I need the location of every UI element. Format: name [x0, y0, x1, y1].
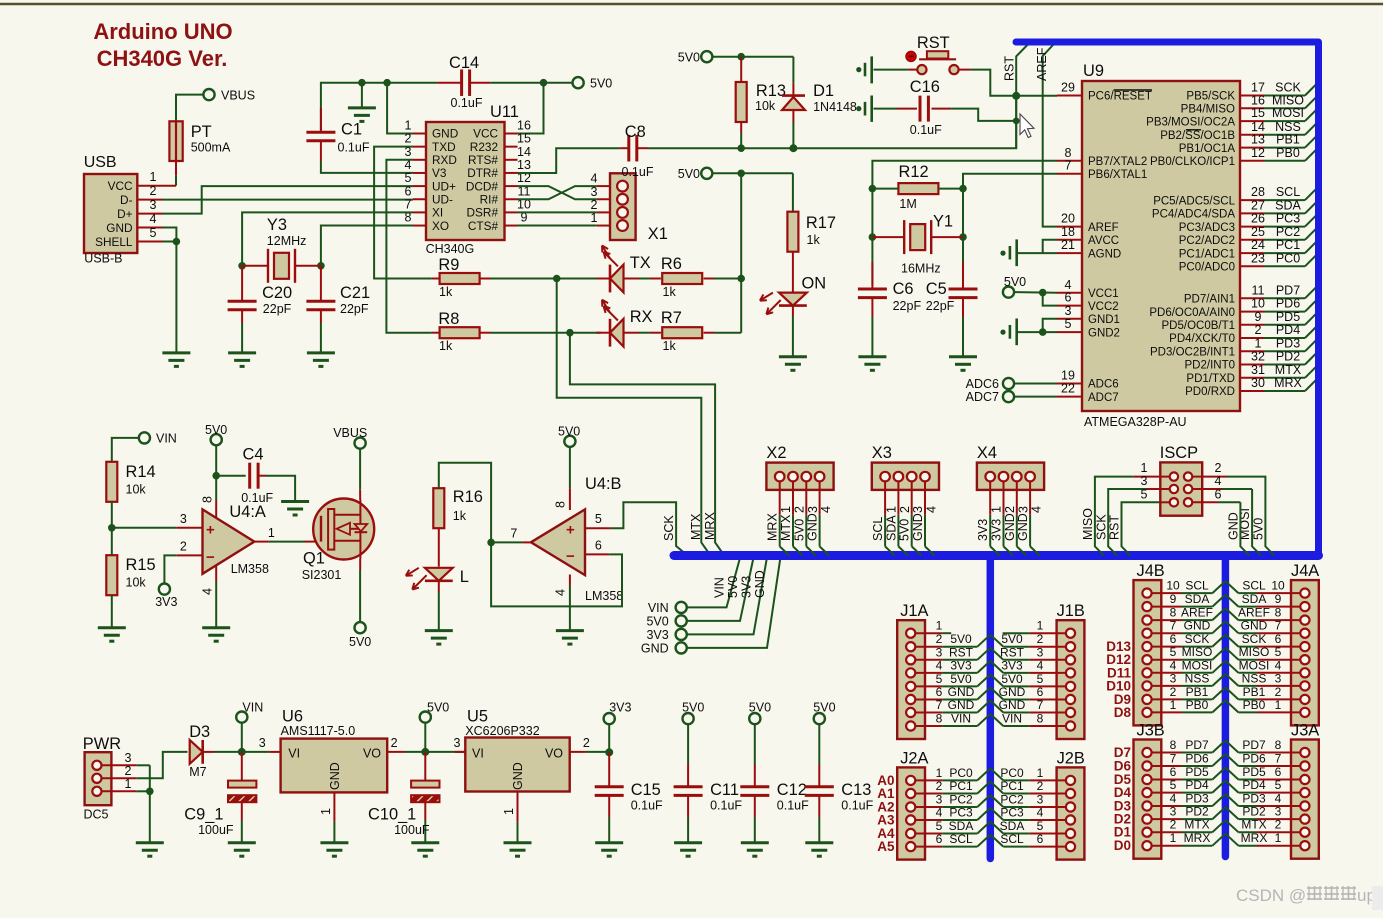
svg-text:GND: GND — [1003, 513, 1017, 541]
watermark hanzi — [1307, 887, 1322, 889]
J3A pin 4 net PD3 — [1300, 801, 1309, 810]
svg-text:1: 1 — [268, 526, 275, 540]
svg-text:XI: XI — [432, 206, 443, 220]
svg-text:10: 10 — [1251, 297, 1265, 311]
svg-text:UD-: UD- — [432, 192, 453, 206]
U9 pin 18 stub — [1057, 239, 1082, 241]
svg-text:RST: RST — [1108, 515, 1122, 540]
svg-text:100uF: 100uF — [394, 823, 430, 837]
svg-text:J4A: J4A — [1291, 562, 1319, 580]
svg-text:SCL: SCL — [1242, 579, 1266, 593]
svg-text:PB5/SCK: PB5/SCK — [1186, 91, 1235, 103]
J4A pin 6 net SCK — [1300, 642, 1309, 651]
J1B pin 2 net 5V0 — [1066, 642, 1075, 651]
svg-text:25: 25 — [1251, 225, 1265, 239]
svg-text:C9_1: C9_1 — [184, 806, 223, 824]
J2B pin 6 net SCL — [1066, 842, 1075, 851]
diode D1 1N4148 — [792, 57, 794, 83]
svg-text:1: 1 — [1275, 698, 1282, 712]
svg-text:TXD: TXD — [432, 140, 456, 154]
svg-text:3: 3 — [1016, 506, 1030, 513]
wire Y1 right — [931, 236, 963, 238]
svg-text:1: 1 — [936, 619, 943, 633]
J3A pin 3 net PD2 — [1300, 815, 1309, 824]
J4A pin 10 net SCL — [1300, 589, 1309, 598]
svg-text:9: 9 — [1275, 592, 1282, 606]
svg-text:10k: 10k — [755, 99, 776, 113]
svg-text:PD5/OC0B/T1: PD5/OC0B/T1 — [1162, 320, 1236, 332]
connector X3 — [872, 463, 939, 490]
svg-text:PC1: PC1 — [1000, 779, 1024, 793]
capacitor C9_1 (electrolytic) — [241, 752, 243, 781]
terminal 5V0 (Q1 source) — [355, 622, 366, 633]
svg-text:2: 2 — [1275, 685, 1282, 699]
svg-text:15: 15 — [517, 132, 531, 146]
svg-text:VIN: VIN — [648, 601, 669, 615]
svg-text:CSDN @: CSDN @ — [1236, 886, 1306, 905]
wire VIN to bus — [687, 559, 740, 607]
svg-text:RST: RST — [949, 645, 974, 659]
terminal 5V0 (U4:A pin8) — [211, 434, 222, 445]
svg-text:ISCP: ISCP — [1160, 444, 1198, 462]
svg-text:5V0: 5V0 — [590, 77, 612, 91]
svg-text:PB4/MISO: PB4/MISO — [1181, 104, 1235, 116]
terminal 5V0 (C13) — [814, 713, 825, 724]
J1B pin 7 net GND — [1066, 708, 1075, 717]
svg-text:GND: GND — [1184, 619, 1211, 633]
wire C4 to ground — [266, 476, 295, 502]
bus center-left vertical (J1/J2) — [987, 556, 995, 859]
U11 pin 3 (RXD) — [413, 159, 426, 161]
svg-text:C13: C13 — [841, 781, 871, 799]
svg-text:23: 23 — [1251, 251, 1265, 265]
svg-text:0.1uF: 0.1uF — [622, 165, 654, 179]
svg-text:+: + — [206, 522, 215, 539]
J3A pin 5 net PD4 — [1300, 788, 1309, 797]
gnd-terminal at C16 — [870, 96, 873, 122]
svg-text:3V3: 3V3 — [950, 658, 972, 672]
svg-text:USB: USB — [84, 154, 117, 171]
wire Y3 left — [242, 265, 268, 267]
svg-text:D+: D+ — [117, 207, 133, 221]
svg-text:PD7: PD7 — [1242, 738, 1266, 752]
svg-text:AREF: AREF — [1238, 606, 1270, 620]
U9 pin 13 to bus net PB1 — [1240, 147, 1264, 149]
capacitor C10_1 (electrolytic) — [424, 752, 426, 781]
svg-text:R13: R13 — [756, 82, 786, 100]
J4B pin 8 net AREF — [1142, 616, 1151, 625]
svg-text:RTS#: RTS# — [468, 153, 498, 167]
U9 pin 16 to bus net MISO — [1240, 107, 1264, 109]
J3B pin 4 net PD3 — [1142, 801, 1151, 810]
svg-text:5V0: 5V0 — [558, 425, 580, 439]
bus top horizontal + right vertical + main horizontal — [1016, 42, 1319, 556]
svg-text:C15: C15 — [631, 781, 661, 799]
X3 pin 4 net GND — [920, 472, 930, 482]
svg-text:RST: RST — [917, 34, 950, 52]
svg-text:PD5: PD5 — [1242, 765, 1266, 779]
J1B pin 4 net 3V3 — [1066, 668, 1075, 677]
node R12 right — [959, 185, 967, 193]
X2 pin 4 net GND — [815, 472, 825, 482]
ground USB — [162, 351, 190, 354]
svg-text:5: 5 — [1141, 488, 1148, 502]
wire U5 VO to 3V3 — [586, 751, 609, 753]
svg-text:PC0: PC0 — [1000, 766, 1024, 780]
svg-text:PD0/RXD: PD0/RXD — [1185, 386, 1235, 398]
wire R8 to RX node — [491, 332, 601, 334]
ISCP pin 6 — [1184, 498, 1192, 506]
svg-text:PD4: PD4 — [1242, 778, 1266, 792]
svg-text:MRX: MRX — [1241, 831, 1268, 845]
svg-text:16MHz: 16MHz — [901, 262, 941, 276]
U11 pin 6 (UD-) — [413, 198, 426, 200]
svg-text:4: 4 — [936, 658, 943, 672]
svg-text:RST: RST — [1000, 645, 1025, 659]
J1A pin 3 net RST — [906, 655, 915, 664]
connector USB — [84, 174, 137, 253]
svg-text:4: 4 — [925, 506, 939, 513]
wire Y1 left — [872, 236, 904, 238]
svg-text:1: 1 — [1170, 831, 1177, 845]
J1A pin 5 net 5V0 — [906, 682, 915, 691]
svg-text:4: 4 — [201, 588, 215, 595]
svg-text:7: 7 — [1037, 698, 1044, 712]
svg-text:4: 4 — [936, 806, 943, 820]
wire net RESET (C8 to U9) — [648, 96, 1016, 148]
wire R16 top loop — [439, 463, 491, 543]
svg-text:5: 5 — [1037, 672, 1044, 686]
svg-text:PC2: PC2 — [949, 793, 973, 807]
LED L — [438, 528, 440, 566]
capacitor C14 — [460, 69, 463, 96]
svg-text:2: 2 — [1003, 506, 1017, 513]
resistor R14 — [106, 462, 117, 502]
svg-text:8: 8 — [1170, 606, 1177, 620]
svg-text:D-: D- — [120, 193, 133, 207]
svg-text:6: 6 — [1215, 488, 1222, 502]
svg-text:MTX: MTX — [1275, 363, 1302, 377]
svg-text:SCK: SCK — [662, 515, 676, 541]
capacitor C13 — [818, 724, 820, 764]
svg-text:0.1uF: 0.1uF — [451, 96, 483, 110]
connector J2B — [1057, 767, 1085, 859]
U9 pin 2 to bus net PD4 — [1240, 337, 1264, 339]
svg-text:PD4: PD4 — [1185, 778, 1209, 792]
terminal 5V0 (R17) — [701, 168, 712, 179]
wire D3 to U6 — [214, 751, 269, 753]
J1B pin 5 net 5V0 — [1066, 682, 1075, 691]
wire 5V0 to R17 — [712, 172, 793, 174]
svg-text:5V0: 5V0 — [898, 519, 912, 541]
svg-text:R17: R17 — [806, 214, 836, 232]
U9 pin 7 stub — [1057, 173, 1082, 175]
J4A pin 9 net SDA — [1300, 602, 1309, 611]
ISCP pin 3 — [1170, 485, 1178, 493]
resistor R12 — [898, 183, 938, 194]
U11 pin 13 (DTR#) — [505, 172, 518, 174]
svg-text:VCC1: VCC1 — [1088, 288, 1119, 300]
connector X2 — [766, 463, 833, 490]
J4A pin 7 net GND — [1300, 629, 1309, 638]
node R12 left — [869, 185, 877, 193]
svg-text:7: 7 — [405, 197, 412, 211]
svg-text:5V0: 5V0 — [1001, 672, 1023, 686]
U4:A output to Q1 gate — [254, 541, 268, 543]
svg-text:VIN: VIN — [242, 701, 263, 715]
svg-text:R15: R15 — [126, 556, 156, 574]
wire R13 to RESET row — [740, 133, 742, 148]
svg-text:TX: TX — [630, 254, 651, 272]
svg-text:26: 26 — [1251, 212, 1265, 226]
U9 pin 1 to bus net PD3 — [1240, 350, 1264, 352]
wire PWR pin2 to D3 — [137, 752, 188, 778]
svg-text:USB-B: USB-B — [84, 252, 122, 266]
wire USB GND/SHELL to ground — [163, 228, 177, 242]
svg-text:5: 5 — [1037, 819, 1044, 833]
svg-text:3: 3 — [180, 512, 187, 526]
bus main horizontal — [674, 551, 1319, 560]
wire R14-R15 node — [111, 502, 113, 556]
svg-text:J3B: J3B — [1137, 722, 1165, 740]
J1B pin 6 net GND — [1066, 695, 1075, 704]
terminal 5V0 (U4:B pin8) — [564, 436, 575, 447]
fuse PT — [169, 121, 182, 161]
svg-text:7: 7 — [1275, 752, 1282, 766]
svg-text:PD2: PD2 — [1242, 805, 1266, 819]
svg-text:22pF: 22pF — [263, 302, 292, 316]
svg-text:J4B: J4B — [1137, 562, 1165, 580]
U9 pin 25 to bus net PC2 — [1240, 239, 1264, 241]
J2A pin 2 net PC1 — [906, 789, 915, 798]
J4B pin 5 net MISO — [1142, 655, 1151, 664]
ground C4 — [281, 500, 309, 503]
U4:B pin6 feedback — [585, 553, 609, 555]
U5 pin3 stub — [455, 751, 465, 753]
svg-text:3V3: 3V3 — [609, 701, 631, 715]
ground C13 — [805, 841, 833, 844]
U6 pin2 stub — [387, 751, 404, 753]
diode D3 M7 — [190, 740, 203, 764]
J1B pin 8 net VIN — [1066, 721, 1075, 730]
svg-text:22pF: 22pF — [893, 299, 922, 313]
svg-text:CTS#: CTS# — [468, 219, 499, 233]
U11 pin 15 (R232) — [505, 146, 518, 148]
svg-text:5V0: 5V0 — [646, 614, 668, 628]
svg-text:1: 1 — [1037, 766, 1044, 780]
svg-text:0.1uF: 0.1uF — [777, 799, 809, 813]
svg-text:18: 18 — [1061, 225, 1075, 239]
svg-text:SDA: SDA — [1185, 592, 1210, 606]
svg-text:11: 11 — [1252, 283, 1265, 297]
capacitor C16 — [897, 108, 917, 110]
svg-text:PB0: PB0 — [1243, 698, 1266, 712]
svg-text:PC0: PC0 — [949, 766, 973, 780]
U11 pin 2 (TXD) — [413, 146, 426, 148]
wire DSR# to X1.2 — [518, 211, 597, 213]
svg-text:9: 9 — [1170, 592, 1177, 606]
USB pin 2 stub — [137, 199, 162, 201]
J1A pin 1 — [906, 629, 915, 638]
ISCP pin 1 — [1170, 472, 1178, 480]
J2B pin 4 net PC3 — [1066, 815, 1075, 824]
U6 pin3 stub — [269, 751, 280, 753]
terminal 5V0 (power) — [420, 712, 431, 723]
J1B pin 1 — [1066, 629, 1075, 638]
X4 pin 3 net GND — [1012, 472, 1022, 482]
svg-text:X4: X4 — [977, 444, 997, 462]
ground U5 — [504, 841, 532, 844]
svg-text:V3: V3 — [432, 166, 447, 180]
svg-text:SDA: SDA — [1275, 198, 1301, 212]
svg-text:2: 2 — [1215, 461, 1222, 475]
U6 GND pin1 — [333, 792, 335, 822]
J3B pin 5 net PD4 — [1142, 788, 1151, 797]
svg-text:PB0: PB0 — [1276, 146, 1300, 160]
X4 pin 1 net 3V3 — [985, 472, 995, 482]
wire L to ground — [438, 581, 440, 592]
svg-text:PB0: PB0 — [1186, 698, 1209, 712]
X3 pin 2 net SDA — [894, 472, 904, 482]
svg-text:SCL: SCL — [949, 832, 973, 846]
svg-text:1k: 1k — [439, 285, 453, 299]
PWR pin 3 — [92, 761, 101, 770]
svg-text:PC6/RESET: PC6/RESET — [1088, 91, 1152, 103]
svg-text:U5: U5 — [467, 708, 488, 726]
svg-text:GND: GND — [999, 685, 1026, 699]
wire R7 to 5V rail — [714, 332, 741, 334]
svg-text:DTR#: DTR# — [467, 166, 498, 180]
svg-text:−: − — [206, 549, 215, 566]
svg-text:NSS: NSS — [1185, 671, 1210, 685]
node D1 bottom — [789, 144, 797, 152]
svg-text:8: 8 — [1275, 738, 1282, 752]
wire U9 XTAL1 (pin7) — [963, 174, 1057, 189]
svg-text:32: 32 — [1251, 350, 1265, 364]
ground near C1 — [348, 106, 376, 109]
svg-text:6: 6 — [936, 685, 943, 699]
svg-text:8: 8 — [936, 712, 943, 726]
svg-text:5V0: 5V0 — [1252, 518, 1266, 540]
X1 pin 3 — [597, 198, 610, 200]
U9 pin 32 to bus net PD2 — [1240, 364, 1264, 366]
svg-text:24: 24 — [1251, 238, 1265, 252]
svg-text:M7: M7 — [189, 765, 206, 779]
svg-text:1: 1 — [502, 808, 516, 815]
connector X1 — [610, 173, 636, 240]
svg-text:R232: R232 — [470, 140, 498, 154]
node Y1 left — [869, 233, 877, 241]
svg-text:L: L — [460, 568, 469, 586]
svg-text:GND: GND — [432, 127, 458, 141]
U9 pin 21 stub — [1057, 252, 1082, 254]
svg-text:J1A: J1A — [900, 602, 928, 620]
connector ISCP — [1160, 462, 1202, 515]
U9 pin 15 to bus net MOSI — [1240, 120, 1264, 122]
U9 pin 28 to bus net SCL — [1240, 199, 1264, 201]
ISCP pin5 wire RST — [1160, 501, 1169, 503]
svg-text:CH340G Ver.: CH340G Ver. — [97, 46, 228, 71]
svg-text:7: 7 — [510, 527, 517, 541]
svg-text:1: 1 — [405, 119, 412, 133]
svg-text:3V3: 3V3 — [646, 628, 668, 642]
svg-text:VBUS: VBUS — [221, 89, 255, 103]
svg-text:PC4/ADC4/SDA: PC4/ADC4/SDA — [1152, 209, 1235, 221]
ISCP pin 2 — [1184, 472, 1192, 480]
svg-text:1: 1 — [885, 506, 899, 513]
svg-text:PC1/ADC1: PC1/ADC1 — [1179, 248, 1235, 260]
svg-text:30: 30 — [1251, 376, 1265, 390]
svg-text:U6: U6 — [282, 708, 303, 726]
terminal 5V0 (R13) — [701, 51, 712, 62]
svg-text:MTX: MTX — [1184, 818, 1209, 832]
wire to U11 VCC — [517, 83, 544, 134]
ISCP pin4 wire MOSI — [1193, 488, 1222, 490]
svg-text:8: 8 — [1170, 738, 1177, 752]
capacitor C11 — [687, 724, 689, 764]
capacitor C4 — [216, 475, 246, 477]
wire PT to USB VCC — [175, 161, 177, 176]
svg-text:GND: GND — [948, 698, 975, 712]
wire TX LED to R6 — [624, 278, 640, 280]
USB pin 1 stub — [137, 185, 176, 187]
terminal 5V0 (VCC) — [1003, 287, 1014, 298]
svg-text:C16: C16 — [910, 78, 940, 96]
svg-text:3: 3 — [1170, 805, 1177, 819]
svg-text:PD2: PD2 — [1276, 350, 1300, 364]
svg-text:PC3/ADC3: PC3/ADC3 — [1179, 222, 1235, 234]
ISCP pin 5 — [1170, 498, 1178, 506]
ground C21 — [307, 351, 335, 354]
svg-text:19: 19 — [1061, 369, 1075, 383]
svg-text:PC1: PC1 — [1276, 238, 1300, 252]
svg-text:GND: GND — [911, 513, 925, 541]
svg-text:0.1uF: 0.1uF — [710, 799, 742, 813]
svg-text:SDA: SDA — [1000, 819, 1025, 833]
X3 pin 3 net 5V0 — [907, 472, 917, 482]
wire R15 to ground — [111, 595, 113, 628]
wire VIN to R14 — [112, 438, 139, 462]
svg-text:5V0: 5V0 — [682, 701, 704, 715]
svg-text:GND: GND — [328, 762, 342, 790]
node divider — [108, 524, 116, 532]
wire C1 bottom to V3 net — [321, 161, 413, 173]
U11 pin 9 (CTS#) — [505, 225, 518, 227]
wire GND to bus — [687, 559, 780, 648]
svg-text:PC0: PC0 — [1276, 251, 1300, 265]
svg-text:MTX: MTX — [779, 514, 793, 541]
terminal VBUS — [203, 89, 214, 100]
connector J4A — [1291, 580, 1319, 725]
node VIN/C9 — [238, 748, 246, 756]
wire DCD# to X1.3 (cross) — [518, 186, 597, 199]
node Y1 right — [959, 233, 967, 241]
U4:B pin4 wire — [569, 575, 571, 586]
svg-text:9: 9 — [1255, 310, 1262, 324]
svg-text:GND: GND — [806, 513, 820, 541]
svg-text:5: 5 — [1065, 317, 1072, 331]
svg-text:1: 1 — [779, 506, 793, 513]
svg-text:5V0: 5V0 — [427, 701, 449, 715]
ground C20 — [228, 351, 256, 354]
U11 pin 1 (GND) — [413, 133, 426, 135]
svg-text:SDA: SDA — [949, 819, 974, 833]
svg-text:5V0: 5V0 — [950, 632, 972, 646]
svg-text:0.1uF: 0.1uF — [631, 799, 663, 813]
J3A pin 2 net MTX — [1300, 828, 1309, 837]
svg-text:2: 2 — [583, 736, 590, 750]
U9 pin 9 to bus net PD5 — [1240, 324, 1264, 326]
